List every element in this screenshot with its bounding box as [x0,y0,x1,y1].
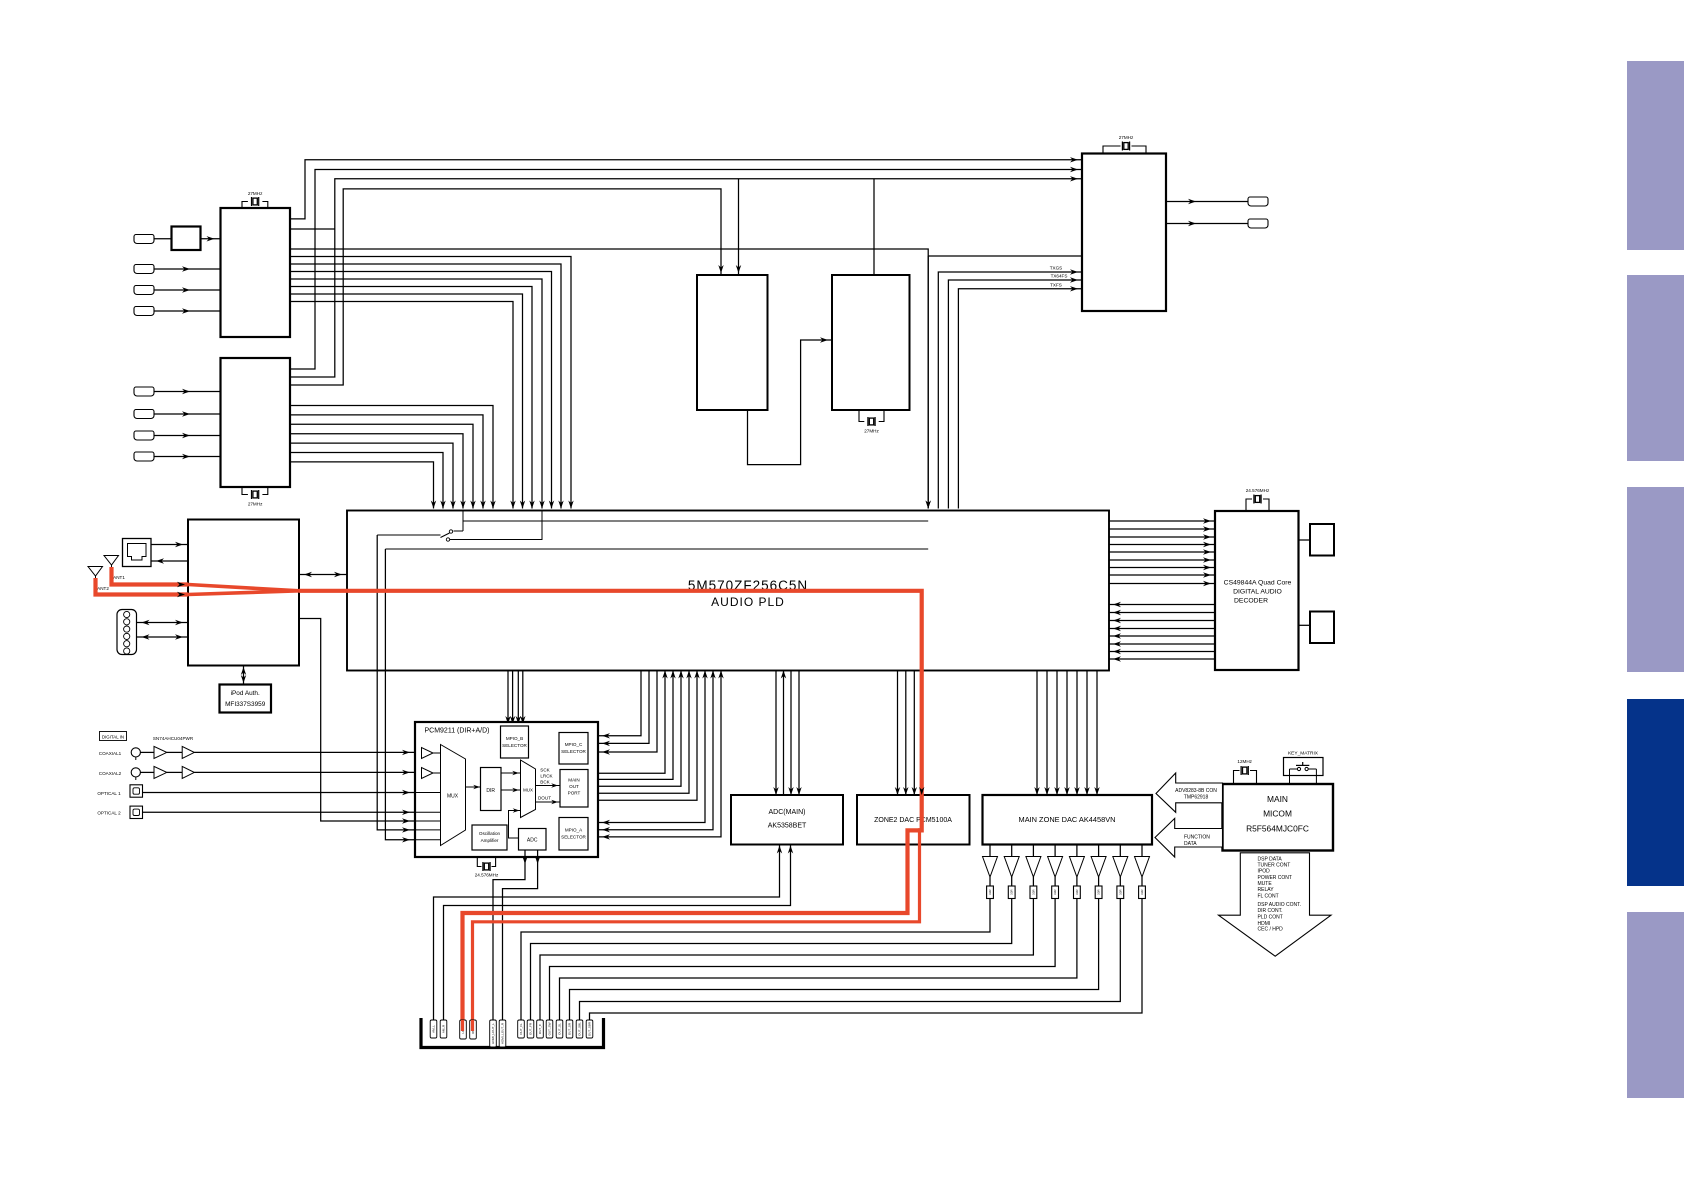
MAIN OUT PORT inside PCM9211 [560,770,588,808]
arrow ANT2 into U7 [177,592,185,597]
wire U4 output 1 [1166,199,1248,204]
resistor R7 [1117,877,1124,899]
block U3 HDMI receiver B [221,358,291,487]
svg-text:SELECTOR: SELECTOR [561,835,586,840]
block U9 audio PLD 5M570ZF256C5N [347,511,1109,671]
connector J2 HDMI in 2 [134,265,154,274]
block U5 video processor [697,275,768,410]
switch SW1 inside PLD [441,530,464,541]
connector J12 DIN jack [117,610,137,655]
connector J14 coaxial 2 [99,768,141,780]
pin tag OUT_C on J17 [537,1020,544,1038]
svg-text:OPTICAL 1: OPTICAL 1 [97,791,121,796]
svg-text:SELECTOR: SELECTOR [561,749,586,754]
svg-text:12MHz: 12MHz [1237,759,1252,764]
wire TXGS PLD to U4 [938,266,1082,509]
wire branch U1 to L3 [290,228,335,230]
wire J7 to U3 [154,433,221,438]
crystal X2 27MHz on U3 [242,487,268,507]
wire bus PCM9211 MPIO_A to PLD [598,671,724,840]
svg-text:Oscillation: Oscillation [479,831,501,836]
page tab bar 3 [1627,487,1684,672]
svg-text:AM_R: AM_R [442,1024,446,1033]
wire red ANT1 feed [112,567,189,585]
wire branch L3 down to U6 [873,179,875,275]
MPIO_A selector inside PCM9211 [559,818,588,851]
wire M2 to MAIN OUT SCK LRCK BCK [536,768,561,788]
page tab bar 2 [1627,275,1684,461]
wire J4 to U1 [154,308,221,313]
buffer A1 inside PCM9211 [422,748,434,759]
svg-text:CEC / HPD: CEC / HPD [1258,927,1284,933]
svg-text:TMP62918: TMP62918 [1184,795,1209,801]
pin tag AM_L on J17 [430,1020,437,1038]
crystal X7 12MHz on U17 [1234,759,1257,784]
connector J4 HDMI in 4 [134,307,154,316]
antenna ANT2 [88,567,109,592]
wire PLD internal net 1 [462,511,464,532]
svg-text:OUT: OUT [569,784,579,789]
connector J5 HDMI in 5 [134,387,154,396]
wire red funnel inside U7 [188,585,299,595]
crystal X3 27MHz on U6 [859,410,884,434]
wire J1 to U2 [154,238,172,240]
connector J15 optical 1 [97,785,142,797]
pin tag ROUT on J17 [470,1020,477,1039]
svg-text:MAIN: MAIN [568,778,579,783]
wire red ANT2 feed [96,578,189,595]
pin tag OUT_FR on J17 [527,1020,534,1038]
svg-text:OUT_SBR: OUT_SBR [588,1021,592,1036]
wire connector to ADC main R [444,845,794,1021]
memory chip U11 [1310,524,1334,556]
wire net L2 U3 to U4 [290,167,1082,369]
wire A bus line to PLD pin near U6 [926,256,931,509]
svg-text:OUT_SW: OUT_SW [548,1022,552,1035]
block U13 PCM9211 DIR+ADC [415,722,598,857]
svg-text:MFI337S3959: MFI337S3959 [225,701,266,708]
block U4 HDMI transmitter [1082,154,1166,312]
block U1 HDMI receiver A [221,208,291,337]
svg-text:33R: 33R [1010,889,1014,895]
pin tag OUT_SR on J17 [566,1020,573,1038]
connector J1 HDMI in 1 [134,235,154,244]
svg-text:33R: 33R [1075,889,1079,895]
wire net L4 U3 to U5 [290,189,724,385]
arrow ANT1 into U7 [177,582,185,587]
svg-text:ADC(MAIN): ADC(MAIN) [769,809,806,816]
wire J2 to U1 [154,266,221,271]
svg-text:OUT_SL: OUT_SL [558,1023,562,1035]
wire connector to ADC main L [434,845,783,1021]
svg-text:COAXIAL2: COAXIAL2 [99,771,122,776]
wire PLD internal net 4 [385,548,928,550]
connector J16 optical 2 [97,806,142,818]
svg-text:DSP DATA: DSP DATA [1258,856,1283,862]
wire M2 DOUT to MAIN OUT [536,796,561,805]
svg-text:DIGITAL AUDIO: DIGITAL AUDIO [1233,589,1282,596]
svg-text:MPIO_C: MPIO_C [565,742,583,747]
svg-text:27MHz: 27MHz [864,429,879,434]
wire red zone2 second channel [473,828,920,1021]
MPIO_B selector inside PCM9211 [501,726,529,758]
block U17 MAIN MICOM R5F564MJC0FC [1223,784,1334,851]
block arrow ADV8283 to MICOM [1156,773,1223,812]
svg-text:KEY_MATRIX: KEY_MATRIX [1288,751,1319,757]
svg-text:HDMI_LOUT_R: HDMI_LOUT_R [501,1022,505,1044]
wire red main zone2 path [299,591,922,1021]
wire PCM9211 ADC out L [493,850,528,1020]
wire U7 to iPod auth [241,666,246,685]
crystal X5 24.576MHz on U10 [1246,488,1270,511]
op-amp A13 DAC output 7 [1113,845,1128,878]
pin tag OUT_FL on J17 [518,1020,525,1038]
wire J8 to U3 [154,454,221,459]
svg-text:R5F564MJC0FC: R5F564MJC0FC [1246,824,1309,834]
block U10 CS49844A DSP [1215,511,1299,670]
svg-text:DECODER: DECODER [1234,598,1268,605]
svg-text:iPod Auth.: iPod Auth. [231,690,260,697]
resistor R2 [1008,877,1015,899]
svg-text:OPTICAL 2: OPTICAL 2 [97,811,121,816]
pin tag OUT_SBL on J17 [576,1020,583,1038]
svg-text:CS49844A Quad Core: CS49844A Quad Core [1224,580,1292,587]
wire J12 to U7 line 2 [137,634,189,639]
resistor R1 [987,877,994,899]
block U7 network tuner module [188,520,299,666]
crystal X1 27MHz on U1 [242,191,268,208]
pin tag OUT_SL on J17 [556,1020,563,1038]
wire TX64FS PLD to U4 [948,274,1082,509]
resistor R4 [1052,877,1059,899]
wire PLD internal net 2 [463,520,928,522]
wire DIR to M2 line1 [501,771,521,776]
DIR block inside PCM9211 [481,768,502,811]
wire U5 to U6 [748,337,833,464]
svg-text:ANT2: ANT2 [97,586,109,591]
svg-text:FUNCTION: FUNCTION [1184,834,1210,840]
op-amp A12 DAC output 6 [1091,845,1106,878]
op-amp A8 DAC output 2 [1004,845,1019,878]
svg-text:33R: 33R [1118,889,1122,895]
wire DIR to M2 line2 [501,788,521,793]
wire DAC output 4 to connector [550,899,1056,1021]
antenna ANT1 [104,556,125,581]
svg-text:MUX: MUX [447,794,459,800]
svg-text:IPOD: IPOD [1258,868,1271,874]
connector J3 HDMI in 3 [134,286,154,295]
wire J11 to U7 [151,542,188,547]
block arrow MICOM outputs down [1219,853,1332,956]
svg-text:24.576MHz: 24.576MHz [475,873,499,878]
iPod auth chip U8 [220,685,272,713]
resistor R8 [1139,877,1146,899]
svg-text:MAIN: MAIN [1267,794,1288,804]
svg-text:ADC: ADC [527,838,538,844]
svg-text:OUT_SBL: OUT_SBL [578,1022,582,1036]
svg-text:PORT: PORT [568,791,581,796]
wire TXFS PLD to U4 [958,282,1082,508]
wire PLD to PCM9211 MPIOC ctl 1 [377,535,415,833]
block arrow FUNCTION DATA to MICOM [1155,818,1223,857]
svg-text:COAXIAL1: COAXIAL1 [99,751,122,756]
wire DAC output 1 to connector [521,899,990,1021]
svg-text:MPIO_A: MPIO_A [565,828,583,833]
wire net L1 U1 to U4 [290,157,1082,219]
connector J7 HDMI in 7 [134,431,154,440]
wire M1 to DIR [466,785,481,790]
wires into mux M1 [415,753,441,840]
svg-text:TXGS: TXGS [1050,266,1063,271]
svg-text:DIR CONT.: DIR CONT. [1258,908,1283,914]
op-amp A10 DAC output 4 [1048,845,1063,878]
wire ADC to M2 [509,808,521,838]
svg-text:POWER CONT: POWER CONT [1258,875,1292,881]
crystal X6 24.576MHz on PCM9211 [475,857,499,878]
wire bus U3 outputs to PLD [290,406,496,509]
pin tag HDMI_LOUT_R on J17 [499,1020,506,1047]
wire branch L3 down to U5 [736,179,741,275]
svg-text:PCM9211 (DIR+A/D): PCM9211 (DIR+A/D) [424,728,489,735]
pin tag HDMI_LOUT_L on J17 [490,1020,497,1047]
wire J3 to U1 [154,287,221,292]
svg-text:24.576MHz: 24.576MHz [1246,488,1270,493]
svg-text:27MHz: 27MHz [248,191,263,196]
svg-text:FL CONT: FL CONT [1258,894,1279,900]
svg-text:MUX: MUX [523,788,533,793]
crystal X4 27MHz on U4 [1103,135,1146,154]
wire J6 to U3 [154,411,221,416]
wire bus PLD to CS49844A [1109,518,1215,586]
ADC inside PCM9211 [519,829,547,851]
arrow red into ZONE2 DAC [919,787,924,795]
wire U2 to U1 [201,236,221,241]
svg-text:DIR: DIR [486,788,495,794]
svg-text:SELECTOR: SELECTOR [502,743,527,748]
svg-text:AK5358BET: AK5358BET [768,823,807,830]
op-amp A11 DAC output 5 [1069,845,1084,878]
pin tag OUT_SW on J17 [546,1020,553,1038]
wire bus PCM9211 MAIN OUT to PLD [598,671,700,801]
wire bus PLD to MAIN DAC [1034,671,1099,796]
wire PLD internal net 3 [377,534,440,536]
buffer A5 [154,766,167,778]
wire bus PLD to PCM9211 MPIO_C [598,671,657,755]
repeater box U2 [172,227,201,251]
connector J10 HDMI out 2 [1248,219,1268,228]
buffer A4 [182,746,194,758]
wire net L3 U3 to U4 with branches [290,176,1082,377]
svg-text:MPIO_B: MPIO_B [506,736,523,741]
wire bus PLD to PCM9211 MPIO_B [505,671,525,725]
svg-text:AUDIO PLD: AUDIO PLD [711,595,785,609]
connector J13 coaxial 1 [99,748,141,760]
label DIGITAL IN [100,732,127,741]
svg-text:MAIN ZONE DAC AK4458VN: MAIN ZONE DAC AK4458VN [1019,815,1116,824]
resistor R5 [1074,877,1081,899]
buffer A2 inside PCM9211 [422,768,434,779]
wire red stub into LOUT tag [461,1020,464,1031]
resistor R3 [1030,877,1037,899]
wire red stub into ROUT tag [471,1020,474,1031]
wire U7 to PLD control [299,572,347,577]
block U15 ZONE2 DAC PCM5100A [857,795,970,845]
svg-text:TX64FS: TX64FS [1051,274,1068,279]
svg-text:ZONE2 DAC PCM5100A: ZONE2 DAC PCM5100A [874,817,952,824]
op-amp A9 DAC output 3 [1026,845,1041,878]
svg-text:OUT_FL: OUT_FL [519,1023,523,1035]
svg-text:HDMI_LOUT_L: HDMI_LOUT_L [491,1023,495,1044]
svg-text:OUT_SR: OUT_SR [568,1022,572,1035]
op-amp A7 DAC output 1 [983,845,998,878]
wire DAC output 3 to connector [540,899,1033,1021]
svg-text:33R: 33R [988,889,992,895]
svg-text:OUT_C: OUT_C [538,1023,542,1034]
connector J9 HDMI out 1 [1248,197,1268,206]
wire U4 output 2 [1166,221,1248,226]
block U6 video encoder [832,275,910,410]
connector J6 HDMI in 6 [134,410,154,419]
wire optical1 to PCM9211 [143,790,416,795]
wire PLD to PCM9211 MPIOC ctl 2 [385,549,415,843]
svg-text:AM_L: AM_L [432,1025,436,1033]
wire DAC output 2 to connector [531,899,1012,1021]
svg-text:SCK: SCK [540,768,550,773]
svg-text:MICOM: MICOM [1263,809,1292,819]
oscillation amplifier inside PCM9211 [472,825,507,850]
svg-text:BCK: BCK [540,780,550,785]
mux M2 inside PCM9211 [521,760,536,818]
MPIO_C selector inside PCM9211 [559,733,588,765]
svg-text:33R: 33R [1053,889,1057,895]
connector J8 HDMI in 8 [134,452,154,461]
wire optical2 to PCM9211 [143,810,416,815]
svg-text:DIGITAL IN: DIGITAL IN [102,734,124,739]
svg-text:27MHz: 27MHz [248,502,263,507]
svg-text:33R: 33R [1097,889,1101,895]
connector J17 audio output header [421,1018,604,1048]
svg-text:PLD CONT: PLD CONT [1258,915,1283,921]
memory chip U12 [1310,612,1334,644]
wire coaxial1 to PCM9211 [140,750,415,755]
wire DAC output 8 to connector [590,899,1143,1021]
wire DAC output 5 to connector [560,899,1077,1021]
mux M1 inside PCM9211 [441,745,466,846]
pin tag AM_R on J17 [440,1020,447,1038]
wire PCM9211 ADC out R [503,850,541,1020]
block U14 ADC main AK5358BET [731,795,843,845]
wire bus U1 outputs to PLD [290,249,931,509]
page tab bar 1 [1627,61,1684,250]
connector J11 ethernet [123,539,152,567]
buffer A6 [182,766,194,778]
wire U7 to PCM9211 [299,619,415,824]
wire U10 to U11 [1299,539,1311,541]
resistor R6 [1095,877,1102,899]
svg-text:SN74AHCU04PWR: SN74AHCU04PWR [153,736,194,741]
svg-text:TXFS: TXFS [1050,282,1062,287]
wire DAC output 7 to connector [580,899,1121,1021]
svg-text:ADV8283-8B CON: ADV8283-8B CON [1175,788,1217,794]
wire PLD to U4 ARC [928,255,1082,257]
wire J5 to U3 [154,389,221,394]
svg-text:DATA: DATA [1184,841,1197,847]
wire switch to PLD top [450,511,542,540]
svg-text:DOUT: DOUT [538,796,551,801]
wire U10 to U12 [1299,624,1311,626]
block U16 MAIN ZONE DAC AK4458VN [983,795,1153,845]
page tab bar 5 [1627,912,1684,1098]
pin tag OUT_SBR on J17 [586,1020,593,1038]
page tab bar 4 (active) [1627,699,1684,886]
svg-text:OUT_FR: OUT_FR [529,1022,533,1035]
wire U7 to J11 [151,558,188,563]
svg-text:Amplifier: Amplifier [481,838,499,843]
svg-text:RELAY: RELAY [1258,887,1275,893]
key matrix KEY_MATRIX [1284,751,1324,785]
wire bus PLD to ZONE2 DAC [895,671,917,796]
wire bus PLD to ADC main [773,671,801,796]
svg-text:33R: 33R [1140,889,1144,895]
buffer A3 [154,746,167,758]
pin tag LOUT on J17 [460,1020,467,1039]
svg-text:ANT1: ANT1 [113,575,125,580]
wire J12 to U7 line 1 [137,620,189,625]
op-amp A14 DAC output 8 [1135,845,1150,878]
svg-text:27MHz: 27MHz [1119,135,1134,140]
wire bus CS49844A to PLD [1109,602,1215,662]
wire DAC output 6 to connector [570,899,1099,1021]
svg-text:LRCK: LRCK [540,774,553,779]
svg-text:33R: 33R [1031,889,1035,895]
wire coaxial2 to PCM9211 [140,770,415,775]
